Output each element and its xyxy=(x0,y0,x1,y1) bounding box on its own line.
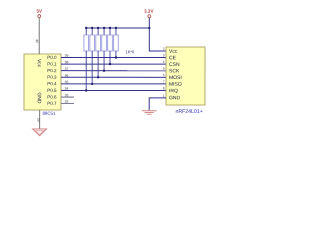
svg-text:P0.3: P0.3 xyxy=(47,75,57,80)
svg-text:MOSI: MOSI xyxy=(169,75,182,81)
svg-text:89C51: 89C51 xyxy=(42,111,55,116)
svg-text:7: 7 xyxy=(163,80,165,84)
svg-text:8: 8 xyxy=(163,86,165,90)
svg-text:GND: GND xyxy=(36,92,42,104)
svg-text:Vcc: Vcc xyxy=(36,59,42,68)
svg-text:2: 2 xyxy=(163,47,165,51)
svg-text:CSN: CSN xyxy=(169,62,180,68)
svg-text:GND: GND xyxy=(169,95,181,101)
svg-text:P0.4: P0.4 xyxy=(47,81,57,86)
svg-text:4: 4 xyxy=(163,60,165,64)
svg-text:1: 1 xyxy=(163,94,165,98)
svg-text:3: 3 xyxy=(163,53,165,57)
svg-text:P0.1: P0.1 xyxy=(47,61,57,66)
svg-text:CE: CE xyxy=(169,55,177,61)
svg-text:1K*6: 1K*6 xyxy=(126,49,135,54)
svg-text:P0.7: P0.7 xyxy=(47,101,57,106)
svg-text:Vcc: Vcc xyxy=(169,49,178,55)
svg-text:5: 5 xyxy=(163,67,165,71)
svg-text:P0.6: P0.6 xyxy=(47,94,57,99)
svg-text:P0.0: P0.0 xyxy=(47,55,57,60)
svg-text:nRF24L01+: nRF24L01+ xyxy=(175,109,202,115)
svg-text:6: 6 xyxy=(163,73,165,77)
svg-text:5V: 5V xyxy=(37,9,44,14)
svg-text:IRQ: IRQ xyxy=(169,88,178,94)
svg-text:SCK: SCK xyxy=(169,68,180,74)
svg-text:MISO: MISO xyxy=(169,82,182,88)
svg-text:P0.5: P0.5 xyxy=(47,88,57,93)
svg-text:40: 40 xyxy=(35,39,39,43)
svg-text:P0.2: P0.2 xyxy=(47,68,57,73)
svg-text:20: 20 xyxy=(36,118,40,122)
svg-text:3.3V: 3.3V xyxy=(144,9,154,14)
